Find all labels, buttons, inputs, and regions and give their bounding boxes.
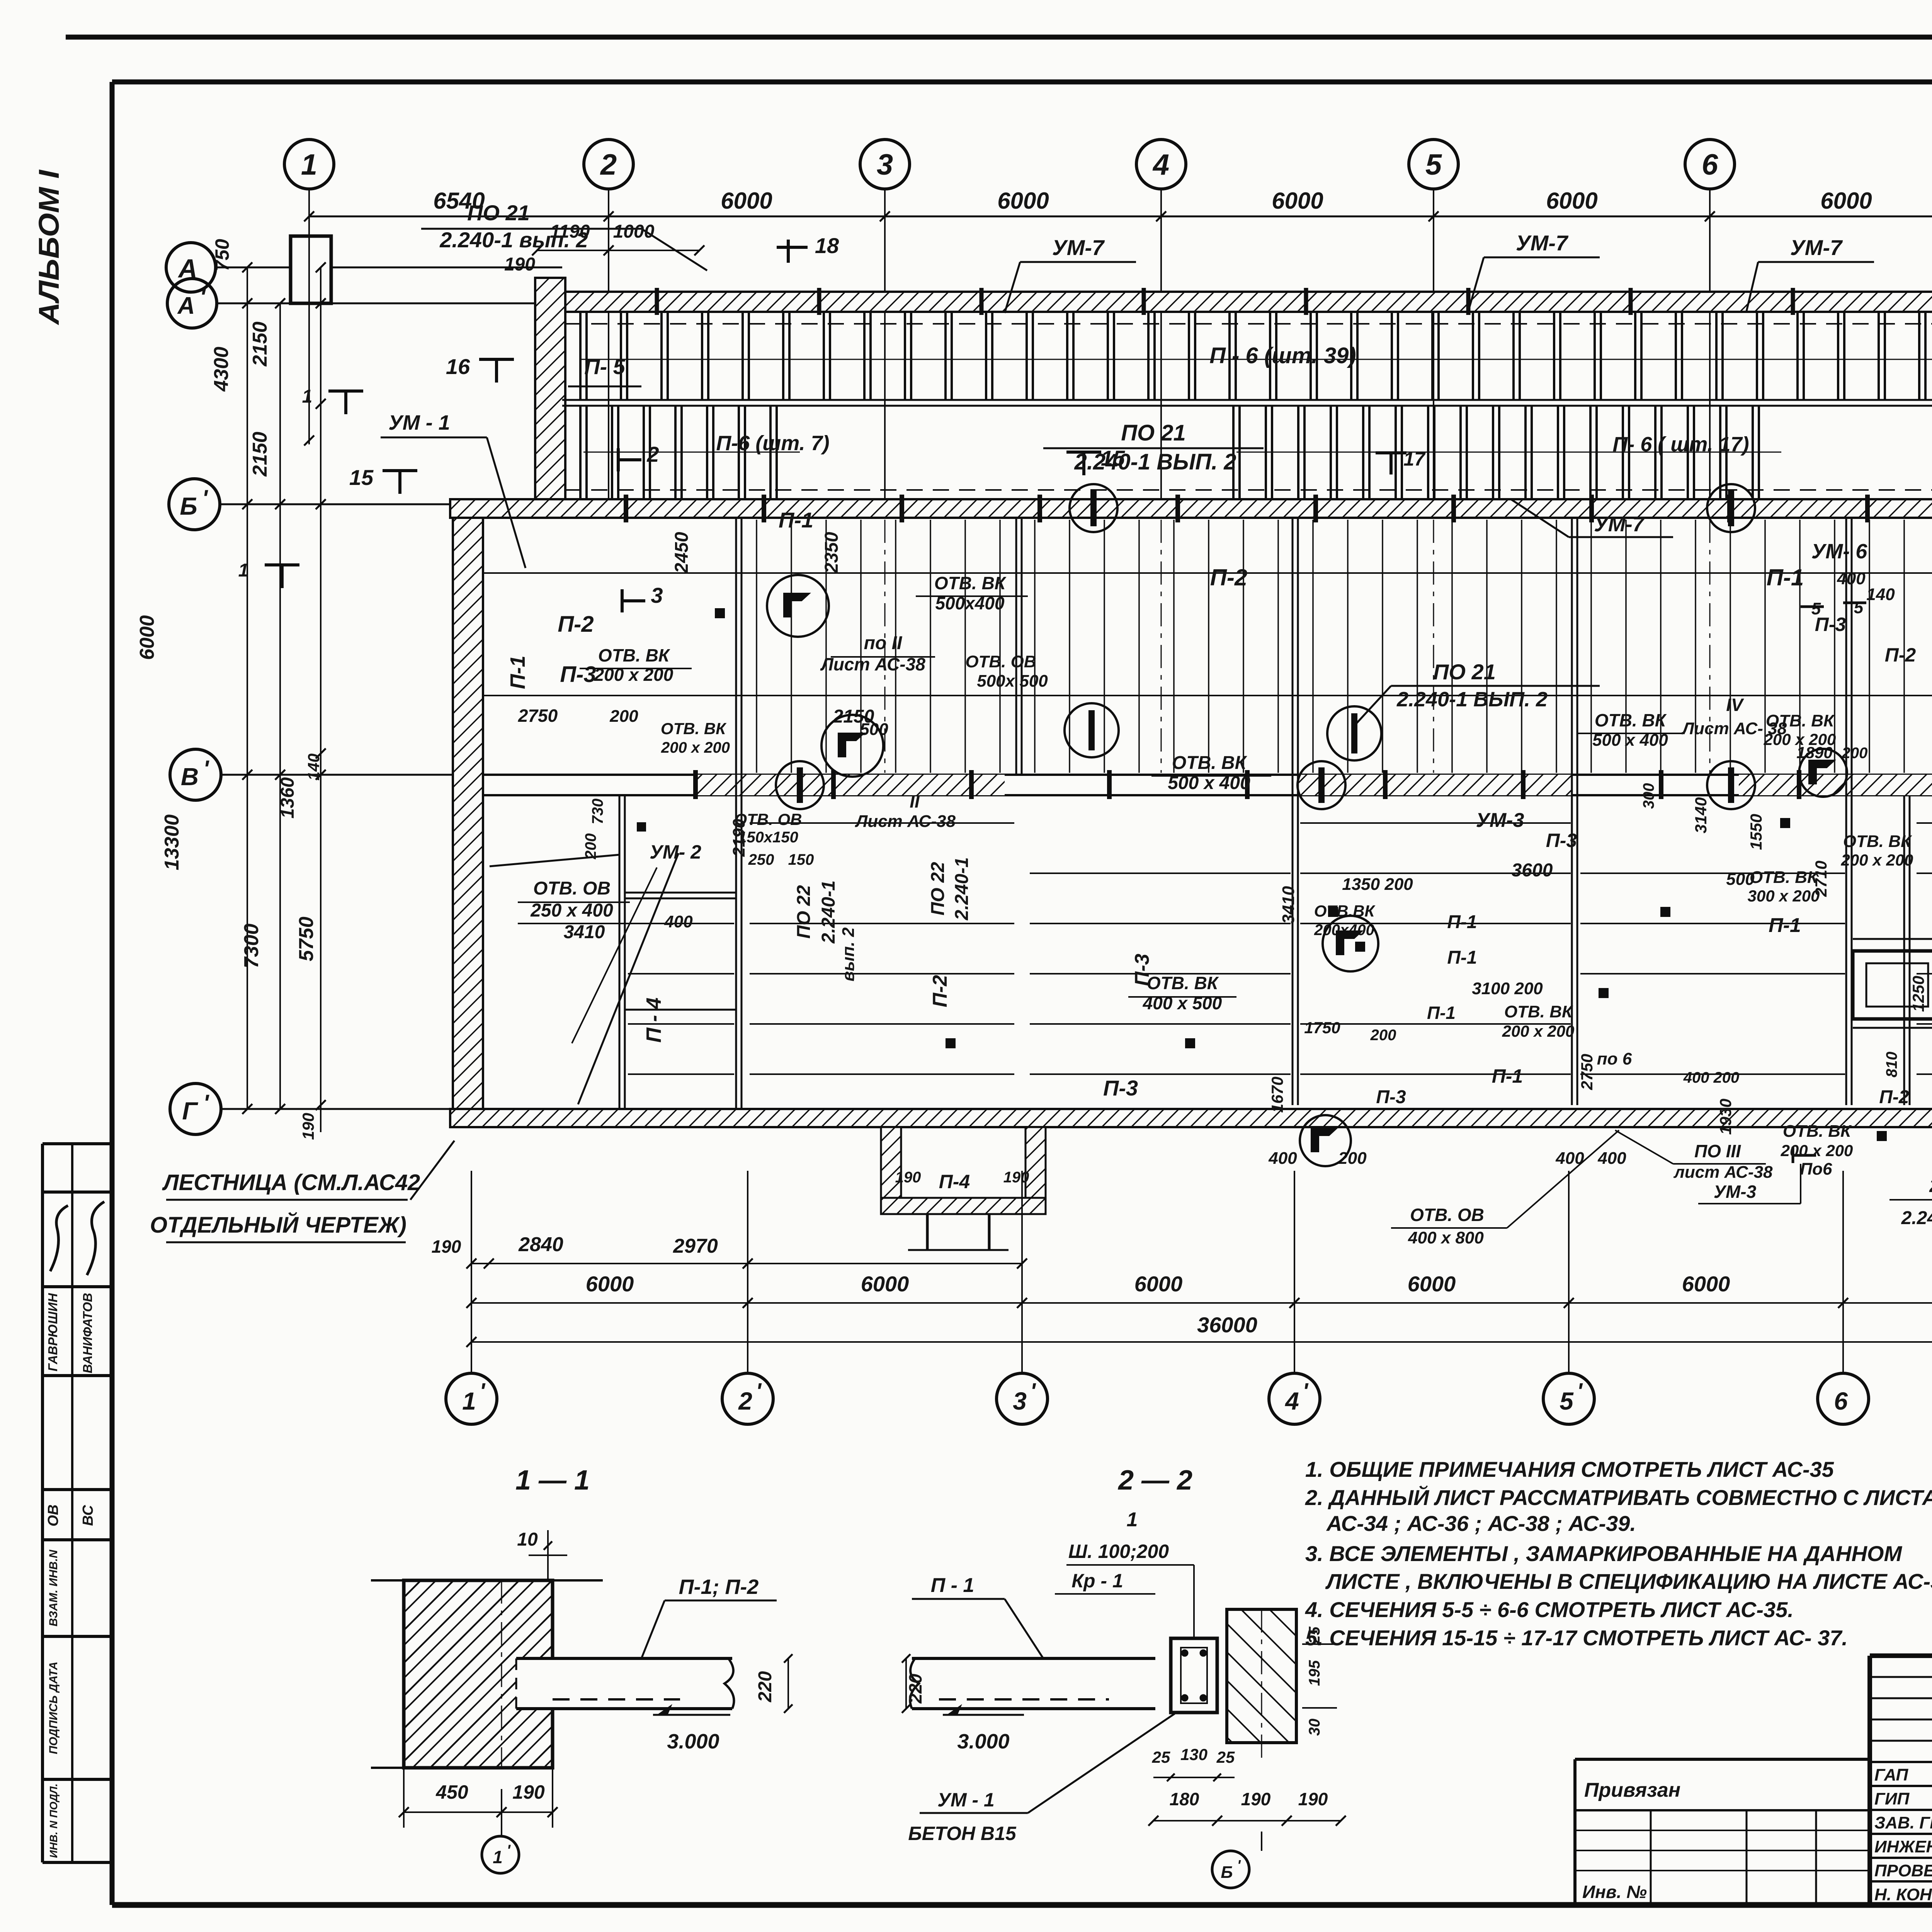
svg-text:П-2: П-2 <box>1879 1087 1909 1107</box>
svg-text:II: II <box>910 791 920 811</box>
svg-text:2 — 2: 2 — 2 <box>1117 1465 1192 1496</box>
svg-text:2: 2 <box>600 148 617 181</box>
svg-text:1: 1 <box>302 386 313 407</box>
svg-text:ВЗАМ. ИНВ.N: ВЗАМ. ИНВ.N <box>47 1549 60 1626</box>
svg-text:БЕТОН В15: БЕТОН В15 <box>908 1823 1016 1844</box>
svg-text:ПО III: ПО III <box>1694 1141 1741 1161</box>
svg-text:Н. КОНТР.: Н. КОНТР. <box>1874 1885 1932 1904</box>
svg-text:ОТВ. ВК: ОТВ. ВК <box>1504 1002 1573 1021</box>
svg-text:3: 3 <box>651 583 663 607</box>
svg-text:ПРОВЕР.: ПРОВЕР. <box>1874 1861 1932 1880</box>
svg-text:П-2: П-2 <box>558 612 594 637</box>
svg-text:5: 5 <box>1811 599 1821 618</box>
svg-text:2150: 2150 <box>249 321 271 367</box>
svg-text:195: 195 <box>1306 1660 1323 1686</box>
svg-text:ОТВ. ВК: ОТВ. ВК <box>1750 868 1819 887</box>
svg-text:ПО 22: ПО 22 <box>928 862 948 915</box>
svg-text:2: 2 <box>646 442 659 466</box>
svg-text:IV: IV <box>1726 695 1744 715</box>
svg-text:2150: 2150 <box>249 432 271 477</box>
svg-text:УМ-3: УМ-3 <box>1476 809 1524 832</box>
svg-text:1: 1 <box>238 560 249 581</box>
svg-text:': ' <box>1030 1379 1036 1404</box>
svg-text:ОТДЕЛЬНЫЙ ЧЕРТЕЖ): ОТДЕЛЬНЫЙ ЧЕРТЕЖ) <box>150 1212 406 1238</box>
svg-text:2710: 2710 <box>1812 861 1830 897</box>
svg-text:200 х 200: 200 х 200 <box>1502 1022 1575 1040</box>
svg-text:ОТВ. ВК: ОТВ. ВК <box>934 573 1007 593</box>
svg-text:УМ-7: УМ-7 <box>1516 231 1569 255</box>
svg-text:5. СЕЧЕНИЯ 15-15 ÷ 17-17 СМ: 5. СЕЧЕНИЯ 15-15 ÷ 17-17 СМОТРЕТЬ ЛИСТ А… <box>1305 1626 1848 1650</box>
svg-text:2840: 2840 <box>518 1233 563 1256</box>
svg-text:1350 200: 1350 200 <box>1342 875 1413 894</box>
svg-text:10: 10 <box>517 1529 538 1550</box>
svg-text:П- 6 ( шт. 17): П- 6 ( шт. 17) <box>1612 433 1749 456</box>
svg-text:3: 3 <box>1013 1387 1027 1415</box>
svg-text:200: 200 <box>582 833 599 860</box>
svg-text:2450: 2450 <box>672 532 692 573</box>
svg-text:190: 190 <box>895 1169 921 1186</box>
svg-text:': ' <box>480 1379 486 1404</box>
svg-text:300 х 200: 300 х 200 <box>1748 887 1820 905</box>
svg-text:200: 200 <box>1370 1027 1396 1044</box>
svg-text:П-3: П-3 <box>1376 1087 1406 1107</box>
svg-text:П-3: П-3 <box>1103 1076 1138 1100</box>
svg-text:190: 190 <box>504 254 535 275</box>
svg-text:АЛЬБОМ I: АЛЬБОМ I <box>33 169 65 325</box>
svg-text:П- 5: П- 5 <box>584 354 625 379</box>
svg-text:190: 190 <box>1003 1169 1029 1186</box>
svg-text:ВС: ВС <box>80 1505 96 1526</box>
svg-text:1000: 1000 <box>613 221 655 242</box>
svg-text:ГИП: ГИП <box>1874 1789 1910 1808</box>
svg-text:': ' <box>1303 1379 1309 1404</box>
svg-text:2.240-1: 2.240-1 <box>818 881 839 944</box>
svg-text:2970: 2970 <box>673 1235 718 1257</box>
svg-text:ИНЖЕН.: ИНЖЕН. <box>1874 1837 1932 1856</box>
svg-text:25: 25 <box>1152 1748 1170 1766</box>
svg-text:4: 4 <box>1152 148 1169 181</box>
svg-text:Б: Б <box>1221 1863 1233 1882</box>
svg-text:ГАВРЮШИН: ГАВРЮШИН <box>46 1293 60 1372</box>
svg-text:ОВ: ОВ <box>45 1505 61 1527</box>
svg-text:ПОДПИСЬ ДАТА: ПОДПИСЬ ДАТА <box>47 1662 60 1754</box>
svg-text:200 х 200: 200 х 200 <box>1841 851 1913 869</box>
svg-text:1. ОБЩИЕ ПРИМЕЧАНИЯ СМОТРЕТ: 1. ОБЩИЕ ПРИМЕЧАНИЯ СМОТРЕТЬ ЛИСТ АС-35 <box>1305 1457 1834 1481</box>
svg-text:3.000: 3.000 <box>957 1730 1009 1753</box>
svg-text:200: 200 <box>1338 1149 1367 1168</box>
svg-text:П-1: П-1 <box>1767 565 1804 590</box>
svg-text:6000: 6000 <box>1408 1272 1456 1296</box>
svg-text:6000: 6000 <box>1682 1272 1730 1296</box>
svg-text:А: А <box>177 293 195 319</box>
svg-text:400: 400 <box>1837 569 1866 588</box>
svg-text:П-1; П-2: П-1; П-2 <box>679 1575 759 1599</box>
svg-text:УМ-3: УМ-3 <box>1714 1182 1757 1202</box>
svg-text:П - 1: П - 1 <box>931 1574 975 1597</box>
svg-text:ОТВ. ВК: ОТВ. ВК <box>1843 832 1912 851</box>
svg-text:ЗАВ. ГР.: ЗАВ. ГР. <box>1874 1813 1932 1832</box>
svg-text:450: 450 <box>435 1781 468 1803</box>
svg-text:400: 400 <box>1597 1149 1626 1168</box>
svg-text:по II: по II <box>864 633 903 653</box>
svg-text:ИНВ. N ПОДЛ.: ИНВ. N ПОДЛ. <box>48 1784 60 1858</box>
svg-text:Инв. №: Инв. № <box>1582 1882 1647 1902</box>
svg-text:200 х 200: 200 х 200 <box>661 739 730 756</box>
svg-text:6000: 6000 <box>1820 188 1872 214</box>
svg-text:ВАНИФАТОВ: ВАНИФАТОВ <box>80 1293 95 1373</box>
svg-text:1190: 1190 <box>550 221 590 242</box>
svg-text:1: 1 <box>493 1847 503 1867</box>
svg-text:6000: 6000 <box>1272 188 1323 214</box>
svg-text:П-6 (шт. 7): П-6 (шт. 7) <box>716 432 829 455</box>
svg-text:1: 1 <box>1127 1509 1138 1531</box>
svg-text:5: 5 <box>1425 148 1442 181</box>
svg-text:2.240-1: 2.240-1 <box>952 857 972 921</box>
svg-text:УМ - 1: УМ - 1 <box>388 411 450 434</box>
svg-text:П-3: П-3 <box>1546 830 1577 851</box>
svg-text:4. СЕЧЕНИЯ 5-5 ÷ 6-6 СМОТРЕ: 4. СЕЧЕНИЯ 5-5 ÷ 6-6 СМОТРЕТЬ ЛИСТ АС-35… <box>1305 1597 1794 1622</box>
svg-text:1: 1 <box>301 148 317 181</box>
svg-text:1890: 1890 <box>1796 743 1832 762</box>
svg-text:П-1: П-1 <box>1447 947 1477 968</box>
svg-text:': ' <box>1577 1379 1583 1404</box>
svg-text:200: 200 <box>609 707 638 726</box>
svg-text:300: 300 <box>1640 783 1657 809</box>
svg-text:П-1: П-1 <box>1492 1065 1523 1087</box>
svg-text:по 6: по 6 <box>1597 1049 1632 1068</box>
svg-text:ОТВ. ОВ: ОТВ. ОВ <box>965 652 1036 671</box>
svg-text:6000: 6000 <box>721 188 772 214</box>
svg-text:1670: 1670 <box>1268 1077 1286 1112</box>
svg-text:2.240-1 ВЫП. 2: 2.240-1 ВЫП. 2 <box>1396 688 1548 711</box>
svg-text:ГАП: ГАП <box>1874 1765 1908 1784</box>
svg-text:400 200: 400 200 <box>1683 1069 1740 1086</box>
svg-text:4300: 4300 <box>210 347 233 392</box>
svg-text:АС-34 ; АС-36 ; АС-38 ; АС-: АС-34 ; АС-36 ; АС-38 ; АС-39. <box>1326 1511 1636 1536</box>
svg-text:П-1: П-1 <box>506 656 529 689</box>
svg-text:17: 17 <box>1403 448 1426 470</box>
svg-text:2190: 2190 <box>730 819 748 857</box>
svg-text:3600: 3600 <box>1512 860 1553 881</box>
svg-text:3. ВСЕ ЭЛЕМЕНТЫ , ЗАМАРКИРОВ: 3. ВСЕ ЭЛЕМЕНТЫ , ЗАМАРКИРОВАННЫЕ НА ДАН… <box>1305 1541 1902 1566</box>
svg-text:П-4: П-4 <box>939 1171 970 1192</box>
svg-text:200 х 200: 200 х 200 <box>1781 1141 1853 1160</box>
svg-text:П-2: П-2 <box>1210 565 1248 590</box>
svg-text:1250: 1250 <box>1909 976 1927 1012</box>
svg-text:5: 5 <box>1560 1387 1574 1415</box>
svg-text:1360: 1360 <box>277 777 298 818</box>
svg-text:ОТВ. ОВ: ОТВ. ОВ <box>533 878 611 899</box>
svg-text:УМ-7: УМ-7 <box>1052 235 1105 260</box>
svg-text:УМ-7: УМ-7 <box>1790 235 1843 260</box>
svg-text:ЛЕСТНИЦА (СМ.Л.АС42: ЛЕСТНИЦА (СМ.Л.АС42 <box>162 1170 420 1195</box>
svg-text:ОТВ. ВК: ОТВ. ВК <box>598 645 670 665</box>
svg-text:3100 200: 3100 200 <box>1472 979 1543 998</box>
svg-text:П-1: П-1 <box>779 508 813 532</box>
svg-text:2.240-1 ВЫП. 2: 2.240-1 ВЫП. 2 <box>1074 449 1236 474</box>
svg-text:250 х 400: 250 х 400 <box>530 900 613 921</box>
svg-text:Кр - 1: Кр - 1 <box>1071 1570 1123 1592</box>
svg-text:250: 250 <box>748 851 774 868</box>
svg-text:36000: 36000 <box>1197 1313 1257 1337</box>
svg-text:6000: 6000 <box>997 188 1049 214</box>
svg-text:1930: 1930 <box>1716 1099 1735 1134</box>
svg-text:ПО 21: ПО 21 <box>467 201 530 225</box>
svg-text:500х 500: 500х 500 <box>977 672 1048 690</box>
svg-text:ЛИСТЕ , ВКЛЮЧЕНЫ В СПЕЦИФИК: ЛИСТЕ , ВКЛЮЧЕНЫ В СПЕЦИФИКАЦИЮ НА ЛИСТЕ… <box>1325 1569 1932 1594</box>
svg-text:2350: 2350 <box>821 532 842 573</box>
svg-text:УМ- 2: УМ- 2 <box>650 841 701 863</box>
svg-text:220: 220 <box>905 1673 925 1704</box>
svg-text:П - 4: П - 4 <box>642 998 665 1043</box>
svg-text:25: 25 <box>1216 1748 1235 1766</box>
svg-text:П - 6 (шт. 39): П - 6 (шт. 39) <box>1209 343 1356 368</box>
svg-text:П-1: П-1 <box>1447 912 1477 932</box>
svg-text:вып. 2: вып. 2 <box>839 927 858 981</box>
svg-text:13300: 13300 <box>161 815 183 871</box>
svg-text:По6: По6 <box>1800 1160 1833 1179</box>
svg-text:': ' <box>203 1090 209 1116</box>
svg-text:ПО 21: ПО 21 <box>1121 420 1185 446</box>
svg-text:6000: 6000 <box>861 1272 909 1296</box>
svg-text:5750: 5750 <box>295 917 318 961</box>
svg-text:ОТВ. ВК: ОТВ. ВК <box>1595 710 1667 730</box>
svg-text:500: 500 <box>1726 870 1755 889</box>
svg-text:3410: 3410 <box>1279 886 1298 924</box>
svg-text:190: 190 <box>1241 1789 1271 1809</box>
svg-text:3: 3 <box>877 148 893 181</box>
svg-text:18: 18 <box>815 233 839 258</box>
svg-text:21: 21 <box>1929 1176 1932 1196</box>
svg-text:1550: 1550 <box>1747 814 1765 850</box>
svg-text:7300: 7300 <box>240 923 263 968</box>
svg-text:ОТВ. ВК: ОТВ. ВК <box>1172 753 1248 773</box>
svg-text:810: 810 <box>1883 1052 1900 1078</box>
svg-text:ПО 21: ПО 21 <box>1433 660 1496 684</box>
svg-text:400: 400 <box>664 912 693 931</box>
svg-text:': ' <box>507 1842 511 1859</box>
svg-text:190: 190 <box>432 1236 461 1257</box>
svg-text:2: 2 <box>738 1387 752 1415</box>
svg-text:190: 190 <box>512 1781 545 1803</box>
svg-text:ОТВ. ВК: ОТВ. ВК <box>661 719 727 738</box>
svg-text:190: 190 <box>299 1113 317 1140</box>
svg-text:П-2: П-2 <box>1885 644 1916 666</box>
svg-text:6000: 6000 <box>1546 188 1597 214</box>
svg-text:ОТВ. ВК: ОТВ. ВК <box>1783 1122 1852 1141</box>
svg-text:Привязан: Привязан <box>1584 1779 1680 1801</box>
svg-text:2. ДАННЫЙ ЛИСТ РАССМАТРИВАТ: 2. ДАННЫЙ ЛИСТ РАССМАТРИВАТЬ СОВМЕСТНО С… <box>1305 1485 1932 1510</box>
svg-text:П-3: П-3 <box>560 662 596 687</box>
svg-text:30: 30 <box>1306 1719 1323 1736</box>
svg-text:400 х 500: 400 х 500 <box>1143 993 1222 1013</box>
svg-text:730: 730 <box>589 799 606 825</box>
svg-text:6000: 6000 <box>136 615 158 660</box>
svg-text:3.000: 3.000 <box>667 1730 719 1753</box>
svg-text:180: 180 <box>1170 1789 1199 1809</box>
svg-text:3140: 3140 <box>1692 797 1710 833</box>
svg-text:2.240-1 вып. 2: 2.240-1 вып. 2 <box>1901 1208 1932 1228</box>
svg-text:лист АС-38: лист АС-38 <box>1673 1163 1773 1182</box>
svg-text:П-1: П-1 <box>1427 1003 1456 1023</box>
svg-text:': ' <box>756 1379 762 1404</box>
svg-text:3410: 3410 <box>564 922 605 942</box>
svg-text:УМ-7: УМ-7 <box>1594 513 1645 536</box>
svg-text:УМ- 6: УМ- 6 <box>1811 540 1868 563</box>
svg-text:140: 140 <box>304 753 323 781</box>
svg-text:15: 15 <box>349 465 374 490</box>
svg-text:6: 6 <box>1834 1387 1848 1415</box>
svg-text:400: 400 <box>1268 1149 1297 1168</box>
svg-text:150: 150 <box>788 851 814 868</box>
svg-text:Лист АС-38: Лист АС-38 <box>855 812 956 831</box>
svg-text:16: 16 <box>446 354 470 379</box>
svg-text:УМ - 1: УМ - 1 <box>937 1789 995 1811</box>
svg-text:ОТВ. ВК: ОТВ. ВК <box>1766 711 1835 730</box>
svg-text:2750: 2750 <box>1578 1054 1596 1090</box>
svg-text:ОТВ. ОВ: ОТВ. ОВ <box>1410 1205 1484 1225</box>
svg-text:Ш. 100;200: Ш. 100;200 <box>1068 1541 1169 1562</box>
svg-text:В: В <box>181 763 199 791</box>
svg-text:200 х 200: 200 х 200 <box>594 665 673 685</box>
svg-text:ПО 22: ПО 22 <box>794 885 814 939</box>
svg-text:Б: Б <box>180 492 197 520</box>
svg-text:4: 4 <box>1284 1387 1299 1415</box>
svg-text:': ' <box>203 756 209 782</box>
svg-text:130: 130 <box>1180 1745 1207 1764</box>
svg-text:6000: 6000 <box>1134 1272 1183 1296</box>
svg-text:Г: Г <box>182 1097 198 1125</box>
svg-text:5: 5 <box>1854 598 1864 617</box>
svg-text:220: 220 <box>755 1671 776 1702</box>
svg-text:': ' <box>200 284 206 311</box>
svg-text:П-1: П-1 <box>1769 914 1801 937</box>
svg-text:6000: 6000 <box>586 1272 634 1296</box>
svg-text:ОТВ. ВК: ОТВ. ВК <box>1147 973 1219 993</box>
svg-text:П-2: П-2 <box>929 975 951 1007</box>
svg-text:140: 140 <box>1866 585 1895 604</box>
svg-text:2750: 2750 <box>518 706 558 726</box>
svg-text:190: 190 <box>1298 1789 1328 1809</box>
svg-text:1750: 1750 <box>1304 1019 1340 1037</box>
svg-text:200: 200 <box>1842 745 1868 762</box>
svg-text:1 — 1: 1 — 1 <box>515 1465 590 1496</box>
svg-text:400 х 800: 400 х 800 <box>1408 1228 1484 1247</box>
svg-text:6: 6 <box>1702 148 1718 181</box>
svg-text:': ' <box>202 485 208 511</box>
svg-text:1: 1 <box>462 1387 476 1415</box>
